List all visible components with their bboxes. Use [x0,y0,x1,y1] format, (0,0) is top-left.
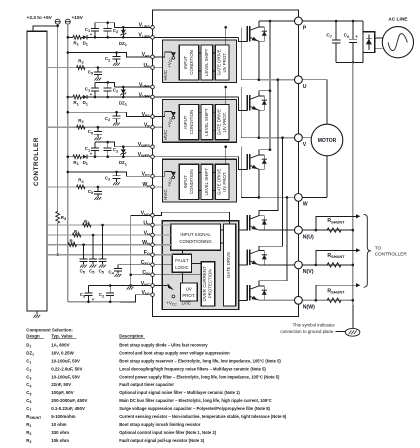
svg-text:VWFS: VWFS [138,142,151,148]
svg-text:N(U): N(U) [303,234,314,240]
svg-text:Fault output signal pull-up re: Fault output signal pull-up resistor (No… [119,438,205,443]
svg-text:VWFB: VWFB [138,152,151,158]
block OVER CURRENT PROTECTION [201,262,215,306]
svg-text:Boot strap supply reservoir –: Boot strap supply reservoir – Electrolyt… [119,358,281,363]
channel V circuitry [47,81,238,142]
svg-text:GATE DRIVE: GATE DRIVE [226,252,231,278]
capacitor C3 [88,286,90,293]
terminal P [295,17,303,25]
svg-text:VVFS: VVFS [139,82,150,88]
wire VNO right branch into gate drive [153,212,230,224]
controller box [27,31,47,311]
DC bus bottom rail [336,53,363,63]
svg-text:+15V: +15V [72,15,84,21]
wire VB drop to gate (V) [238,97,247,110]
svg-text:+3.3 to +5V: +3.3 to +5V [27,15,53,21]
N(V) wire [259,264,353,266]
wire VB drop to gate (W) [238,157,247,170]
capacitor C5 on UN [101,224,104,227]
pin VP1 (V) [151,115,155,119]
capacitor C6 DC bus [352,20,355,23]
IGBT high-side V [247,95,267,110]
block GATE DRIVE (LVIC) [224,224,236,306]
svg-text:INPUT SIGNAL: INPUT SIGNAL [180,232,211,237]
wire VB drop to gate (U) [238,37,247,41]
svg-text:Fault output timer capacitor: Fault output timer capacitor [119,382,174,387]
svg-text:5-100mohm: 5-100mohm [51,414,75,419]
svg-text:RSHUNT: RSHUNT [327,253,345,259]
terminal N(U) [295,226,303,234]
svg-text:V: V [303,142,307,148]
svg-text:CONTROLLER: CONTROLLER [33,137,40,186]
svg-text:Surge voltage suppression capa: Surge voltage suppression capacitor – Po… [119,406,270,411]
connector ISC-GATEDRIVE [220,229,223,231]
svg-text:VNC: VNC [141,281,150,287]
wire U phase [241,79,259,81]
svg-text:330 ohm: 330 ohm [51,430,69,435]
pin UN [151,223,155,227]
wire +5V entry to controller [33,24,58,31]
wire V phase [241,137,259,139]
wire VN1 from +15V bottom rail [68,301,120,303]
svg-text:WP: WP [142,182,150,188]
svg-text:OVER CURRENT: OVER CURRENT [202,266,207,301]
IGBT high-side W [247,154,267,169]
svg-text:AC LINE: AC LINE [388,17,408,23]
capacitor C5 on WN [82,243,85,246]
gate lead LS W [239,299,248,301]
wire FO (gray) [47,254,172,256]
svg-text:RSHUNT: RSHUNT [327,218,345,224]
VNC arrow to LVIC VCC [168,283,174,290]
tap arrow V to controller [316,250,357,265]
terminal U [295,76,303,84]
pin VVFS [151,85,155,89]
connector FAULT-UVPROT [182,272,184,283]
pin UP [151,66,155,70]
wire VNO left to ground drop [131,215,153,285]
shunt RSHUNT (U) [327,228,341,232]
ground plane symbol [345,328,360,336]
svg-text:CONTROLLER: CONTROLLER [375,252,408,257]
block UV PROT [181,283,198,301]
svg-text:Main DC bus filter capacitor –: Main DC bus filter capacitor – Electroly… [119,398,272,403]
terminal V [295,134,303,142]
IGBT low-side W [247,285,267,300]
N(U) wire [259,229,353,231]
svg-text:WN: WN [142,240,150,246]
svg-text:1A, 600V: 1A, 600V [51,343,69,348]
svg-text:Optional input signal noise fi: Optional input signal noise filter – Mul… [119,390,240,395]
svg-text:FO: FO [144,250,150,256]
pin VWFB [151,155,155,159]
pin FO [151,253,155,257]
svg-text:VVFB: VVFB [139,92,150,98]
svg-text:VP1: VP1 [142,52,151,58]
pin VP1 (U) [151,55,155,59]
pin VNC [151,284,155,288]
wire WN (gray) [47,244,171,246]
svg-text:P: P [303,25,307,31]
svg-text:N(W): N(W) [303,305,315,311]
wire W phase [241,196,259,198]
svg-text:16V, 0.25W: 16V, 0.25W [51,350,74,355]
wire VFS drop to U phase (U) [240,27,242,79]
svg-text:Boot strap supply diode – Ultr: Boot strap supply diode – Ultra fast rec… [119,343,208,348]
svg-text:Control power supply filter –: Control power supply filter – Electrolyt… [119,374,280,379]
P trunk vertical [269,21,271,150]
svg-text:VP1: VP1 [142,112,151,118]
wire collector W to trunk [259,150,270,155]
terminal N(V) [295,261,303,269]
svg-text:C6: C6 [344,33,350,39]
pin VN1 [151,293,155,297]
IGBT high-side U [247,26,267,41]
svg-text:10-100uF, 50V: 10-100uF, 50V [51,374,80,379]
svg-text:100pF, 50V: 100pF, 50V [51,390,74,395]
gate lead LS V [239,264,248,266]
motor circle [311,124,343,156]
svg-text:VP1: VP1 [142,172,151,178]
svg-text:connection to ground plane.: connection to ground plane. [280,329,334,334]
pin VUFS [151,26,155,30]
connector FAULT-OCP [192,262,202,264]
svg-text:10-100uF, 50V: 10-100uF, 50V [51,358,80,363]
wire CIN [131,274,202,276]
N(W) wire (gray, ground plane) [259,299,353,301]
terminal W [295,194,303,202]
riser V low-side collector [259,138,283,251]
shunt RSHUNT (V) [327,263,341,267]
svg-text:CONDITIONING: CONDITIONING [179,239,212,244]
svg-text:LOGIC: LOGIC [175,265,189,270]
wire collector V to trunk [259,91,270,96]
svg-text:Local decoupling/high frequenc: Local decoupling/high frequency noise fi… [119,366,266,371]
capacitor C5 on VN [92,234,95,237]
capacitor C7 surge [335,20,338,23]
wire +15V rail [67,24,69,302]
svg-text:Typ. Value: Typ. Value [51,333,73,338]
svg-text:Current sensing resistor – Non: Current sensing resistor – Non-inductive… [119,414,287,419]
svg-text:CIN: CIN [142,270,150,276]
svg-text:UN: UN [143,220,150,226]
resistor R2 on VN [73,233,81,237]
wire collector U to P rail [258,21,260,27]
terminal N(W) [295,296,303,304]
tap arrow W to controller [316,285,357,300]
svg-text:U: U [303,84,307,90]
supply +15V label [72,15,84,21]
bridge to AC stubs [375,37,383,39]
supply terminal +5V [55,19,60,24]
P rail [259,20,363,22]
supply +3.3 to +5V label [27,15,53,21]
svg-text:UV: UV [186,286,192,291]
resistor R3 [56,211,60,223]
svg-text:MOTOR: MOTOR [318,138,337,144]
svg-text:Component Selection:: Component Selection: [26,328,73,333]
wire VNC with ground [89,285,168,287]
svg-text:VUFS: VUFS [139,23,151,29]
svg-text:This symbol indicates: This symbol indicates [293,323,336,328]
block FAULT LOGIC [172,254,191,272]
P wire into bridge [362,21,364,32]
wire CFO and capacitor C4 [118,264,172,266]
IGBT low-side V [247,250,267,265]
resistor R2 on WN [68,243,76,247]
svg-text:Description: Description [119,333,143,338]
channel U circuitry [47,21,238,82]
AC LINE source [382,27,413,58]
svg-text:+: + [355,34,358,39]
svg-text:0.1-0.22uF, 450V: 0.1-0.22uF, 450V [51,406,85,411]
pin CFO [151,263,155,267]
svg-text:Control and boot strap supply: Control and boot strap supply over volta… [119,350,230,355]
svg-text:200-2000uF, 450V: 200-2000uF, 450V [51,398,87,403]
svg-text:VN: VN [144,230,150,236]
IGBT low-side U [247,215,267,230]
pin VP [151,125,155,129]
wire W to motor [326,156,328,198]
supply terminal +15V [65,19,70,24]
svg-text:TO: TO [375,245,382,250]
svg-text:0.22-2.0uF, 50V: 0.22-2.0uF, 50V [51,366,82,371]
bridge rectifier [363,32,375,53]
svg-text:VNO: VNO [141,211,150,217]
svg-text:PROTECTION: PROTECTION [208,270,213,299]
wire UN (gray) [47,224,171,226]
connector ISC-FAULT [182,250,184,254]
capacitor C2 (control filter) [109,286,111,293]
svg-text:22nF, 50V: 22nF, 50V [51,382,71,387]
wire VFS drop to W phase (W) [240,147,242,198]
svg-text:VP: VP [144,123,150,129]
ground trunk (gray) [352,62,354,305]
LVIC gray box [162,221,239,310]
svg-text:PROT.: PROT. [182,293,195,298]
pin VN [151,233,155,237]
svg-text:Optional control input noise f: Optional control input noise filter (Not… [119,430,216,435]
svg-text:10 ohm: 10 ohm [51,422,66,427]
riser U low-side collector [259,80,278,216]
svg-text:FAULT: FAULT [175,258,189,263]
svg-text:Boot strap supply inrush limit: Boot strap supply inrush limiting resist… [119,422,201,427]
wire U to motor [326,80,328,125]
svg-text:RSHUNT: RSHUNT [327,288,345,294]
gate lead LS U [239,229,248,231]
pin VVFB [151,95,155,99]
svg-text:10k ohm: 10k ohm [51,438,69,443]
svg-text:W: W [303,202,308,208]
svg-text:C7: C7 [326,33,332,39]
wire emitter U down [258,41,260,79]
wire R3 to FO line [57,223,59,255]
riser W low-side collector [259,197,287,286]
svg-text:LVIC: LVIC [182,301,191,306]
pin WP [151,185,155,189]
brace to controller [364,214,371,287]
pin VNO [151,214,155,218]
wire VN (gray) [47,234,171,236]
wire +5V rail down to R3 [57,26,59,212]
wire VFS drop to V phase (V) [240,87,242,138]
channel W circuitry [47,141,238,202]
pin VWFS [151,145,155,149]
svg-text:N(V): N(V) [303,269,314,275]
svg-text:UP: UP [144,63,151,69]
pin VUFB [151,36,155,40]
tap arrow U to controller [316,216,357,230]
svg-text:VN1: VN1 [141,290,150,296]
resistor R2 on UN [83,223,91,227]
pin CIN [151,273,155,277]
svg-text:Desgn: Desgn [26,333,40,338]
shunt RSHUNT (W) [327,298,341,302]
block INPUT SIGNAL CONDITIONING [171,224,221,250]
wire emitter W down [258,169,260,197]
pin WN [151,243,155,247]
svg-text:CFO: CFO [141,260,150,266]
wire emitter V down [258,110,260,138]
svg-text:VUFB: VUFB [138,33,150,39]
ground of controller [36,311,38,315]
pin VP1 (W) [151,174,155,178]
